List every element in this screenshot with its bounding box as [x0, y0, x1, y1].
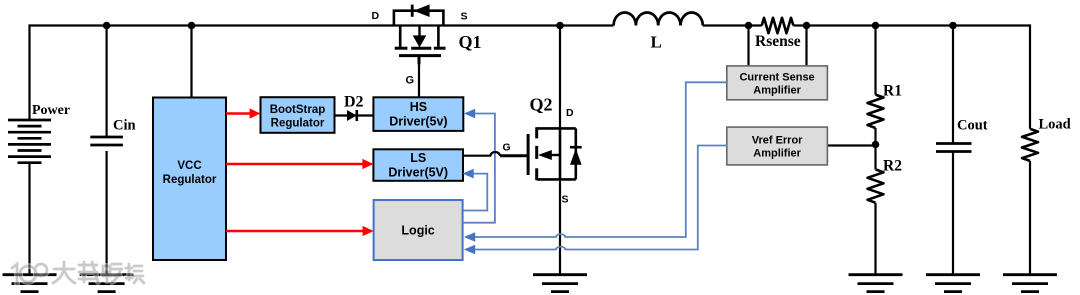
wire Cout bottom — [952, 152, 954, 275]
svg-text:Logic: Logic — [401, 224, 434, 238]
block VCC Regulator — [153, 98, 226, 261]
transistor Q2 arrow head — [538, 150, 552, 160]
transistor Q2 arrow stem — [551, 154, 560, 156]
wire load to ground — [1029, 161, 1031, 275]
wire battery bottom — [28, 163, 30, 275]
svg-text:LS: LS — [410, 151, 426, 165]
net vref error amp to logic blue line with hop — [475, 146, 728, 250]
transistor Q2 body diode vertical — [574, 128, 577, 179]
svg-text:R1: R1 — [883, 83, 902, 100]
wire Q1 gate to HS driver — [418, 64, 420, 97]
transistor Q1 body diode triangle — [414, 4, 430, 17]
block BootStrap Regulator — [261, 97, 335, 133]
junction node VCC/bus — [188, 22, 196, 30]
wire load top drop — [1029, 24, 1031, 128]
junction node Rsense left — [745, 22, 753, 30]
transistor Q1 body diode cathode bar — [411, 5, 414, 17]
resistor Load — [1022, 129, 1038, 161]
net logic-to-HS driver blue line — [463, 114, 495, 223]
transistor Q1 drain leg — [399, 26, 402, 47]
svg-text:Driver(5V): Driver(5V) — [388, 165, 448, 179]
net current sense amp to logic blue line with hop — [475, 82, 728, 237]
svg-text:Rsense: Rsense — [755, 33, 801, 50]
block Logic — [374, 200, 463, 260]
ground under R2 — [849, 275, 903, 292]
wire top bus left segment — [30, 24, 614, 26]
wire R2 to ground — [874, 203, 876, 275]
svg-text:Amplifier: Amplifier — [753, 85, 801, 97]
ground under Cin — [80, 275, 134, 292]
net VCC to logic red line — [226, 230, 363, 232]
svg-text:Current Sense: Current Sense — [739, 72, 814, 84]
svg-text:Amplifier: Amplifier — [753, 148, 801, 160]
wire Cout top drop — [952, 26, 954, 144]
arrowhead into HS driver — [464, 109, 475, 119]
wire Q2 gate hop arc redraw — [490, 152, 500, 156]
transistor Q1 body diode loop — [394, 11, 444, 26]
wire Rsense left tap to current sense amp — [747, 26, 749, 67]
wire top bus mid segment — [703, 24, 762, 26]
diode D2 wire — [335, 114, 374, 116]
ground under Load — [1003, 275, 1057, 292]
svg-text:D: D — [566, 107, 574, 119]
svg-text:S: S — [562, 194, 569, 206]
ground under Cout — [926, 275, 980, 292]
svg-text:D2: D2 — [344, 94, 364, 111]
resistor R2 — [868, 169, 884, 202]
junction node R1 top — [872, 22, 880, 30]
transistor Q1 gate plate — [399, 54, 441, 57]
arrowhead into logic upper — [464, 232, 475, 242]
block LS Driver(5V) — [373, 149, 463, 181]
diode D2 triangle — [347, 110, 357, 121]
arrowhead into logic red — [363, 226, 374, 236]
junction node Cout/bus — [949, 22, 957, 30]
svg-text:Load: Load — [1039, 117, 1071, 133]
wire Cin bottom — [105, 151, 107, 275]
net VCC to LS driver red line — [226, 163, 363, 165]
wire Vref error amp output to feedback node — [828, 144, 876, 146]
wire top bus right segment — [793, 24, 1030, 26]
inductor L — [614, 12, 703, 25]
net VCC to bootstrap regulator red line — [226, 112, 250, 114]
wire LS driver to Q2 gate with hop — [463, 152, 500, 156]
svg-text:G: G — [503, 142, 511, 154]
transistor Q2 upper contact — [537, 127, 576, 130]
wire feedback node to R2 — [874, 145, 876, 170]
transistor Q1 source leg — [437, 26, 440, 47]
transistor Q2 body diode triangle — [570, 149, 582, 165]
wire R1 to feedback node — [874, 128, 876, 145]
transistor Q2 channel bars — [535, 127, 538, 180]
svg-text:R2: R2 — [883, 158, 902, 175]
junction node Rsense right — [803, 22, 811, 30]
wire Cin top drop — [105, 26, 107, 138]
wire Rsense right tap to current sense amp — [805, 26, 807, 67]
transistor Q2 gate lead thick — [500, 154, 528, 157]
junction node feedback divider — [872, 141, 880, 149]
svg-text:Cin: Cin — [113, 118, 136, 134]
svg-text:Q2: Q2 — [530, 95, 553, 115]
ground under battery — [3, 275, 57, 292]
svg-text:Regulator: Regulator — [163, 174, 217, 186]
arrowhead into LS driver — [462, 169, 473, 179]
wire battery top drop — [28, 24, 30, 120]
svg-text:G: G — [406, 75, 415, 87]
svg-text:VCC: VCC — [177, 160, 201, 172]
svg-text:Regulator: Regulator — [271, 117, 325, 129]
junction node Cin/bus — [103, 22, 111, 30]
svg-text:BootStrap: BootStrap — [270, 104, 326, 116]
net logic-to-LS driver blue line — [463, 174, 488, 211]
svg-text:L: L — [651, 33, 662, 52]
block Current Sense Amplifier — [727, 66, 828, 100]
wire VCC regulator top drop — [190, 26, 192, 98]
svg-text:S: S — [461, 11, 468, 23]
transistor Q2 body diode cathode bar — [570, 146, 582, 149]
watermark logo and text — [12, 262, 144, 284]
wire Q2 source to ground — [559, 179, 561, 274]
transistor Q1 gate lead thick — [418, 56, 421, 65]
svg-text:Cout: Cout — [957, 118, 988, 134]
svg-text:Power: Power — [32, 103, 70, 118]
transistor Q2 center vertical — [559, 128, 562, 179]
resistor R1 — [868, 95, 884, 128]
transistor Q2 lower contact — [537, 178, 576, 181]
arrowhead into logic lower — [464, 245, 475, 255]
diode D2 cathode bar — [355, 110, 358, 121]
capacitor Cout — [936, 144, 972, 152]
battery Power — [8, 120, 51, 163]
transistor Q1 arrow stem — [418, 26, 420, 37]
junction node Q2 drain/bus — [556, 22, 564, 30]
arrowhead into bootstrap regulator — [250, 108, 261, 118]
block HS Driver(5v) — [373, 97, 463, 131]
capacitor Cin — [90, 137, 123, 145]
arrowhead into LS driver red — [362, 159, 373, 169]
resistor Rsense — [762, 18, 794, 33]
svg-text:Q1: Q1 — [459, 32, 482, 52]
ground under Q2 — [533, 275, 587, 292]
svg-text:D: D — [372, 10, 380, 22]
wire Q2 drain drop — [559, 26, 561, 129]
wire R1 top drop — [874, 26, 876, 95]
svg-text:Vref Error: Vref Error — [752, 135, 803, 147]
svg-text:HS: HS — [410, 100, 427, 114]
block Vref Error Amplifier — [727, 127, 828, 165]
svg-text:Driver(5v): Driver(5v) — [389, 114, 447, 128]
transistor Q2 gate bar — [527, 134, 530, 175]
transistor Q1 arrow head — [413, 35, 427, 47]
transistor Q1 contact bars — [395, 47, 446, 50]
